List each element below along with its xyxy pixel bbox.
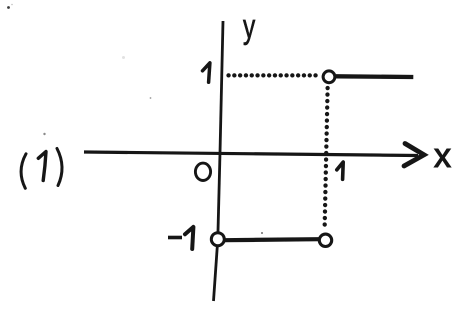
svg-text:x: x	[434, 137, 451, 175]
svg-text:y: y	[243, 8, 255, 46]
